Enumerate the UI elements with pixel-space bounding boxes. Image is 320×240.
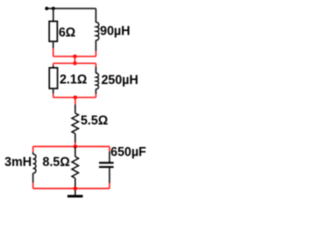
wire 90uH bottom lead black part — [95, 40, 97, 51]
ground — [67, 195, 82, 198]
wire 6ohm top lead — [52, 9, 54, 22]
svg-text:3mH: 3mH — [5, 155, 32, 169]
wire 5.5ohm top lead red part — [74, 97, 76, 104]
wire 2.1ohm top lead red part — [52, 63, 54, 65]
wire 250uH bottom lead black part — [95, 89, 97, 94]
resistor 8.5 ohm zigzag — [72, 157, 79, 179]
wire rail C red — [53, 96, 96, 98]
svg-text:90µH: 90µH — [100, 24, 130, 38]
wire 8.5ohm bottom lead to ground — [74, 178, 76, 195]
wire 5.5ohm bottom lead black part — [74, 134, 76, 143]
resistor 5.5 ohm zigzag — [72, 113, 79, 133]
wire 650uF top lead black part — [109, 151, 111, 162]
wire 2.1ohm bottom lead red part — [52, 94, 54, 98]
node input terminal dot — [45, 7, 48, 10]
wire 90uH top lead — [95, 9, 97, 23]
wire 8.5ohm top lead black part — [74, 147, 76, 157]
svg-text:6Ω: 6Ω — [59, 25, 76, 39]
node rail B junction dot — [73, 61, 77, 65]
capacitor 650uF top plate — [99, 162, 114, 164]
wire 3mH bottom lead red part — [32, 183, 34, 189]
node rail A junction dot — [73, 55, 77, 59]
node top junction dot — [52, 7, 55, 10]
resistor 2.1 ohm body — [49, 68, 57, 89]
inductor 3mH coil — [33, 154, 36, 173]
inductor 250uH coil — [96, 73, 99, 89]
capacitor 650uF bottom plate — [99, 166, 114, 168]
node rail E junction dot — [73, 187, 77, 191]
wire 650uF bottom lead red part — [109, 183, 111, 189]
wire 5.5ohm top lead black part — [74, 105, 76, 114]
wire 650uF bottom lead black part — [109, 168, 111, 183]
svg-text:5.5Ω: 5.5Ω — [81, 114, 108, 128]
wire 3mH top lead red part — [32, 147, 34, 153]
wire 3mH bottom lead black part — [32, 173, 34, 183]
svg-text:650µF: 650µF — [111, 145, 147, 159]
wire rail D red — [33, 146, 110, 148]
wire 250uH top lead black part — [95, 67, 97, 74]
svg-text:250µH: 250µH — [101, 73, 138, 87]
wire red link A-B — [74, 56, 76, 63]
wire rail A red — [53, 55, 96, 57]
node rail C junction dot — [73, 96, 77, 100]
wire 90uH bottom lead red part — [95, 51, 97, 56]
wire 650uF top lead red part — [109, 147, 111, 152]
wire 6ohm bottom lead black part — [52, 41, 54, 48]
wire 250uH top lead red part — [95, 63, 97, 66]
wire rail B red — [53, 62, 96, 64]
node rail D junction dot — [73, 145, 77, 149]
svg-text:8.5Ω: 8.5Ω — [43, 155, 70, 169]
wire 5.5ohm bottom lead red part — [74, 143, 76, 147]
wire rail E red — [33, 188, 110, 190]
wire 6ohm bottom lead red part — [52, 48, 54, 56]
wire 2.1ohm bottom lead black part — [52, 89, 54, 94]
wire 250uH bottom lead red part — [95, 94, 97, 98]
wire 3mH top lead black part — [32, 152, 34, 154]
wire top horizontal — [47, 8, 96, 10]
resistor 6 ohm body — [49, 21, 57, 41]
svg-text:2.1Ω: 2.1Ω — [60, 72, 87, 86]
inductor 90uH coil — [96, 22, 99, 40]
wire 2.1ohm top lead black part — [52, 66, 54, 68]
